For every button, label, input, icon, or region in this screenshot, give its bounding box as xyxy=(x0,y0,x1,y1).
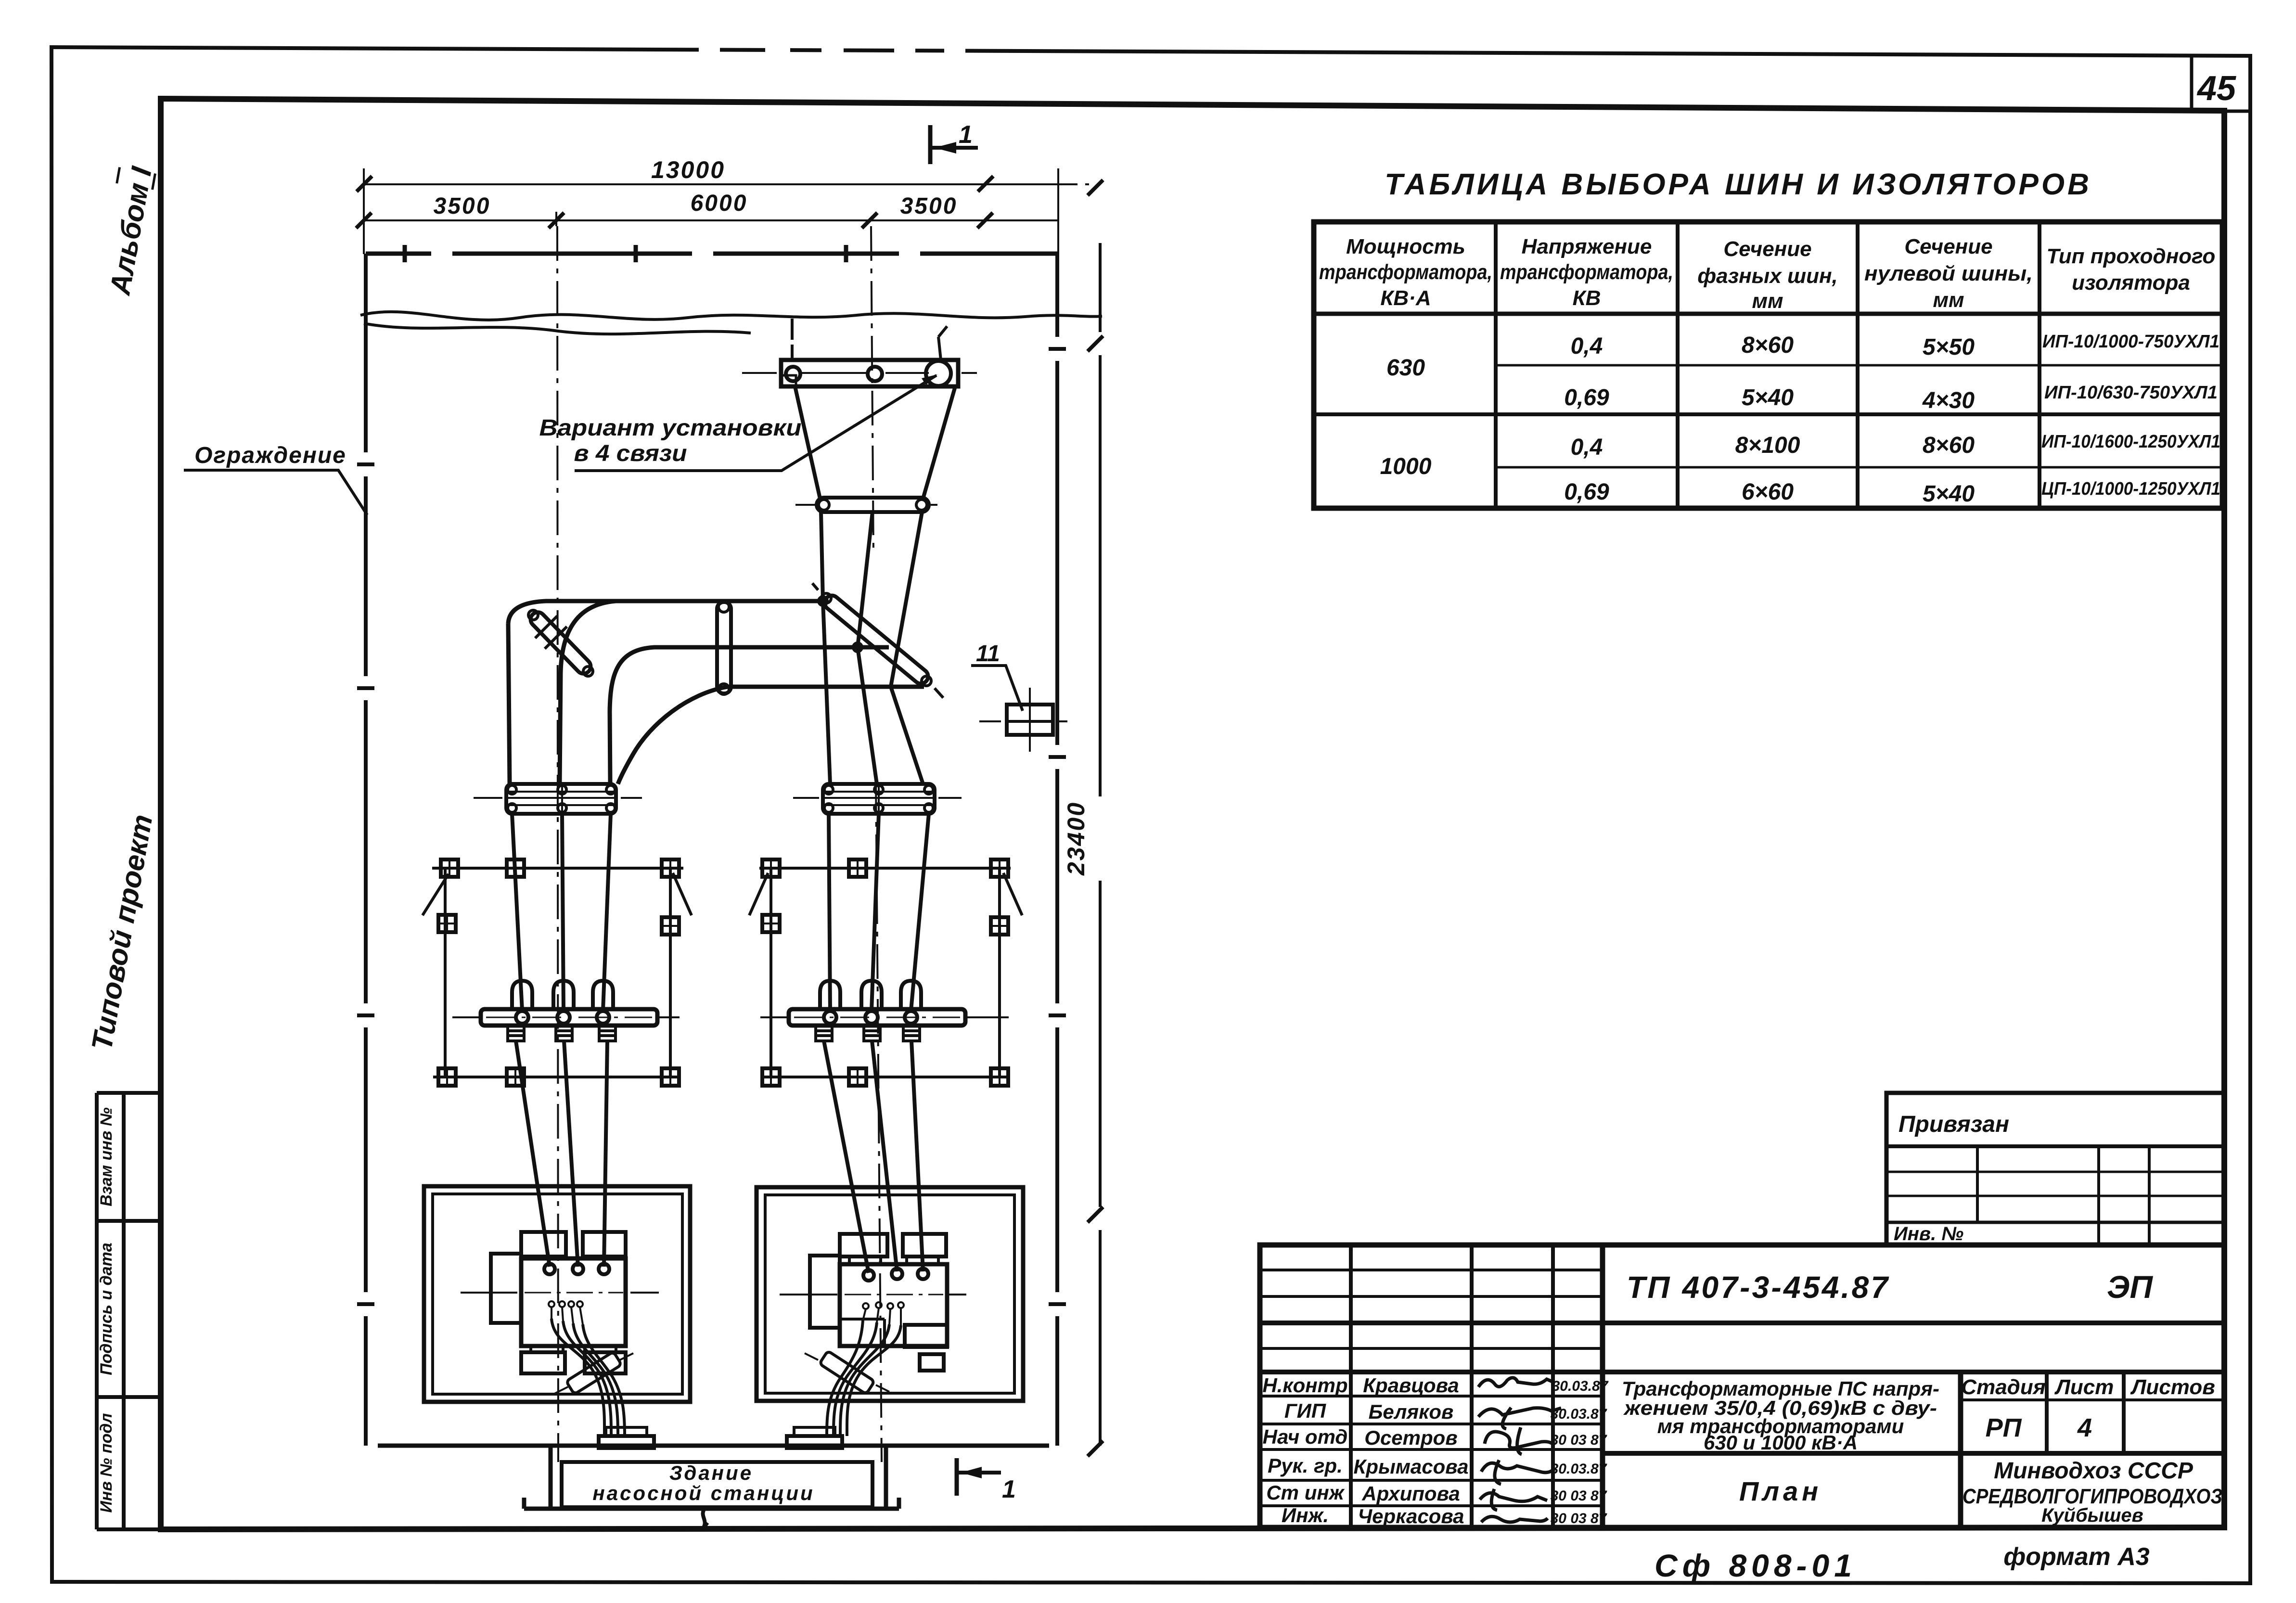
svg-text:13000: 13000 xyxy=(651,156,725,183)
svg-text:Тип проходного: Тип проходного xyxy=(2047,244,2216,268)
svg-text:Ст инж: Ст инж xyxy=(1266,1481,1345,1504)
svg-text:фазных шин,: фазных шин, xyxy=(1697,264,1838,288)
svg-text:насосной станции: насосной станции xyxy=(592,1482,814,1504)
svg-text:1: 1 xyxy=(1002,1475,1016,1503)
svg-text:трансформатора,: трансформатора, xyxy=(1319,260,1492,284)
svg-text:5×40: 5×40 xyxy=(1742,385,1794,410)
svg-text:Сечение: Сечение xyxy=(1723,237,1811,261)
svg-text:ГИП: ГИП xyxy=(1284,1399,1326,1422)
svg-text:5×50: 5×50 xyxy=(1923,334,1975,360)
svg-text:мм: мм xyxy=(1933,288,1964,312)
svg-text:ТАБЛИЦА ВЫБОРА ШИН И ИЗОЛЯ: ТАБЛИЦА ВЫБОРА ШИН И ИЗОЛЯТОРОВ xyxy=(1385,168,2092,201)
svg-text:6×60: 6×60 xyxy=(1742,479,1794,505)
svg-text:Сф 808-01: Сф 808-01 xyxy=(1655,1548,1857,1583)
svg-text:8×60: 8×60 xyxy=(1742,333,1794,358)
svg-text:4: 4 xyxy=(2077,1413,2092,1442)
svg-text:Инв. №: Инв. № xyxy=(1894,1223,1963,1244)
svg-text:ИП-10/1600-1250УХЛ1: ИП-10/1600-1250УХЛ1 xyxy=(2041,432,2220,452)
svg-text:30 03 87: 30 03 87 xyxy=(1551,1488,1607,1504)
svg-text:в 4 связи: в 4 связи xyxy=(574,441,687,466)
svg-text:23400: 23400 xyxy=(1063,801,1090,876)
svg-text:ИП-10/630-750УХЛ1: ИП-10/630-750УХЛ1 xyxy=(2044,383,2218,403)
svg-text:Черкасова: Черкасова xyxy=(1358,1505,1464,1527)
svg-text:Листов: Листов xyxy=(2130,1375,2215,1399)
svg-text:Беляков: Беляков xyxy=(1369,1400,1454,1423)
svg-text:формат А3: формат А3 xyxy=(2003,1543,2149,1571)
svg-text:нулевой шины,: нулевой шины, xyxy=(1864,262,2033,285)
svg-text:мм: мм xyxy=(1752,289,1783,313)
svg-text:5×40: 5×40 xyxy=(1923,481,1975,507)
svg-text:Вариант установки: Вариант установки xyxy=(539,415,802,441)
svg-text:30 03 87: 30 03 87 xyxy=(1551,1432,1607,1448)
svg-text:Подпись и дата: Подпись и дата xyxy=(97,1243,115,1375)
svg-text:Кравцова: Кравцова xyxy=(1363,1374,1459,1397)
svg-text:ИП-10/1000-750УХЛ1: ИП-10/1000-750УХЛ1 xyxy=(2042,332,2219,352)
svg-text:0,69: 0,69 xyxy=(1564,479,1609,505)
svg-text:Здание: Здание xyxy=(669,1462,753,1484)
svg-text:изолятора: изолятора xyxy=(2072,271,2190,295)
svg-text:0,69: 0,69 xyxy=(1564,385,1609,410)
svg-text:3500: 3500 xyxy=(434,193,491,219)
svg-text:Рук. гр.: Рук. гр. xyxy=(1268,1454,1343,1477)
svg-text:Крымасова: Крымасова xyxy=(1354,1455,1469,1478)
svg-text:8×60: 8×60 xyxy=(1923,433,1975,458)
svg-text:Напряжение: Напряжение xyxy=(1522,235,1652,258)
svg-text:4×30: 4×30 xyxy=(1922,388,1975,413)
svg-text:КВ·А: КВ·А xyxy=(1380,286,1431,310)
svg-text:1000: 1000 xyxy=(1380,454,1432,479)
svg-text:План: План xyxy=(1739,1476,1822,1506)
svg-text:ЦП-10/1000-1250УХЛ1: ЦП-10/1000-1250УХЛ1 xyxy=(2041,479,2220,499)
svg-text:Куйбышев: Куйбышев xyxy=(2041,1505,2143,1526)
svg-text:0,4: 0,4 xyxy=(1571,333,1603,359)
svg-text:Стадия: Стадия xyxy=(1961,1375,2045,1399)
svg-text:630: 630 xyxy=(1386,355,1425,381)
svg-text:630 и 1000 кВ·А: 630 и 1000 кВ·А xyxy=(1704,1431,1858,1454)
svg-text:Архипова: Архипова xyxy=(1361,1482,1460,1505)
svg-text:Нач отд: Нач отд xyxy=(1263,1425,1348,1448)
svg-text:3500: 3500 xyxy=(900,193,958,219)
svg-text:ЭП: ЭП xyxy=(2107,1269,2153,1305)
svg-text:1: 1 xyxy=(959,121,973,149)
svg-text:Минводхоз СССР: Минводхоз СССР xyxy=(1994,1458,2193,1484)
svg-text:45: 45 xyxy=(2196,69,2236,108)
svg-text:КВ: КВ xyxy=(1573,286,1601,310)
svg-text:Н.контр: Н.контр xyxy=(1262,1374,1347,1397)
svg-text:11: 11 xyxy=(976,641,1000,667)
svg-text:30.03.87: 30.03.87 xyxy=(1552,1378,1609,1394)
svg-text:ТП 407-3-454.87: ТП 407-3-454.87 xyxy=(1627,1270,1889,1305)
svg-text:Инв № подл: Инв № подл xyxy=(97,1413,115,1513)
svg-text:Привязан: Привязан xyxy=(1898,1112,2009,1137)
svg-text:8×100: 8×100 xyxy=(1735,433,1800,458)
svg-text:РП: РП xyxy=(1986,1413,2022,1442)
svg-text:6000: 6000 xyxy=(691,191,748,216)
svg-text:0,4: 0,4 xyxy=(1571,435,1603,460)
svg-text:Сечение: Сечение xyxy=(1904,235,1992,258)
svg-text:Лист: Лист xyxy=(2054,1375,2114,1399)
svg-text:Осетров: Осетров xyxy=(1364,1426,1457,1449)
svg-text:30 03 87: 30 03 87 xyxy=(1551,1511,1607,1526)
svg-text:Мощность: Мощность xyxy=(1346,235,1465,258)
svg-text:30.03.87: 30.03.87 xyxy=(1551,1461,1607,1477)
svg-text:Ограждение: Ограждение xyxy=(194,443,346,468)
svg-text:Взам инв №: Взам инв № xyxy=(97,1107,115,1206)
svg-text:трансформатора,: трансформатора, xyxy=(1500,260,1673,284)
svg-text:Инж.: Инж. xyxy=(1282,1504,1329,1526)
